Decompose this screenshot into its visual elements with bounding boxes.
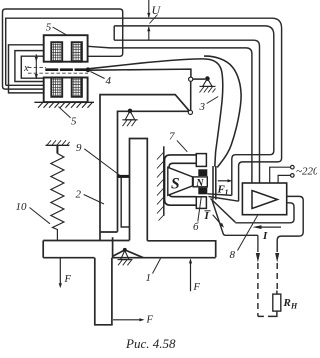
- knife edge pivot of beam: [118, 248, 133, 265]
- amplifier 8 box: [242, 183, 286, 215]
- magnet S cone: [168, 167, 193, 195]
- svg-text:S: S: [171, 176, 180, 193]
- svg-text:I: I: [204, 210, 210, 222]
- vertical link between joints: [190, 81, 192, 110]
- svg-text:F: F: [193, 282, 201, 293]
- svg-text:б: б: [193, 221, 199, 233]
- transformer core 5 (top E-core): [44, 35, 88, 62]
- dashed connection to load: [258, 263, 277, 316]
- svg-text:F: F: [146, 315, 154, 326]
- F1 force arrow: [218, 179, 233, 182]
- dashed gap lines near armature: [28, 67, 88, 73]
- lever 3 curved arm (inner edge, from armature): [90, 59, 223, 167]
- wire W1 wrap: core right lower terminal around top-left down to bottom core: [3, 9, 123, 89]
- spring anchor: [46, 140, 70, 153]
- ground hatch under bottom core: [34, 102, 94, 108]
- wire W3-W4 jog: [113, 26, 115, 40]
- svg-text:Рис. 4.58: Рис. 4.58: [125, 336, 176, 351]
- yoke pole blocks: [196, 154, 206, 209]
- wire W2 bus y18: [6, 18, 282, 201]
- link 9 (dark bar): [118, 175, 130, 178]
- svg-text:H: H: [290, 302, 298, 311]
- svg-text:3: 3: [199, 101, 206, 113]
- ~220 terminals: [270, 165, 294, 183]
- current I arrow near coil: [213, 215, 224, 228]
- output arrows to load: [256, 235, 279, 262]
- force F at bottom (right arrow): [113, 318, 145, 321]
- coil winding grids (top core): [52, 43, 81, 60]
- svg-text:4: 4: [106, 75, 112, 87]
- svg-text:x: x: [23, 63, 29, 74]
- coil wires fan: [208, 194, 258, 236]
- svg-text:8: 8: [230, 249, 236, 261]
- svg-text:F: F: [64, 274, 72, 285]
- coil winding grids (bottom core): [52, 78, 81, 95]
- thin rod right of channel: [121, 177, 129, 228]
- svg-text:5: 5: [71, 116, 77, 128]
- spring 10: [51, 154, 64, 241]
- beam 1: [43, 237, 216, 257]
- svg-text:N: N: [195, 178, 204, 189]
- wire W5 bus y48 from top core right upper terminal: [88, 46, 252, 183]
- svg-text:I: I: [262, 230, 268, 242]
- central column: [130, 139, 148, 241]
- x displacement arrow: [35, 54, 38, 79]
- wire W4 bus y40: [114, 40, 259, 183]
- joint circle top: [189, 77, 193, 81]
- armature junction blob: [86, 67, 91, 72]
- amp right output wire: [277, 196, 303, 252]
- U supply arrows: [147, 0, 157, 40]
- wire T1 top core upper-left terminal wrap: [9, 45, 45, 93]
- joint circle bottom: [188, 110, 192, 114]
- current I arrow under amp: [253, 225, 282, 229]
- lever from armature (bottom edge): [90, 69, 191, 77]
- wire T2 top core lower-left terminal wrap: [15, 51, 44, 82]
- svg-text:7: 7: [169, 131, 175, 143]
- lower column of beam: [95, 258, 112, 325]
- force F left (down arrow): [59, 258, 62, 288]
- amplifier triangle: [252, 191, 278, 209]
- svg-text:10: 10: [16, 201, 28, 213]
- link from joint to pivot: [193, 78, 205, 80]
- transformer core 5 (bottom E-core): [44, 78, 88, 103]
- flexure vane: [213, 166, 216, 200]
- svg-text:~220: ~220: [296, 166, 317, 178]
- pivot of lever 3: [200, 76, 216, 92]
- lever 2 frame: top arm: [100, 95, 189, 241]
- magnet wall hatch: [157, 146, 164, 220]
- coil 6 black sections: [198, 169, 207, 176]
- lever 3 curved arm (outer edge): [204, 56, 241, 167]
- svg-text:1: 1: [146, 272, 152, 284]
- svg-text:5: 5: [46, 22, 52, 34]
- svg-text:R: R: [283, 297, 291, 309]
- wire W2 left tail into bottom core: [6, 84, 44, 86]
- armature bar 4: [45, 68, 88, 71]
- svg-text:9: 9: [76, 142, 82, 154]
- load resistor RH: [268, 291, 281, 317]
- N pole box: [193, 177, 207, 187]
- pivot of lever 2: [122, 109, 137, 127]
- force F right (up arrow): [189, 258, 192, 291]
- svg-text:2: 2: [76, 189, 82, 201]
- svg-text:U: U: [152, 3, 162, 17]
- wire W3 bus y26: [114, 26, 274, 196]
- armature guide box around x marker: [21, 56, 44, 78]
- magnet yoke 7: [165, 155, 197, 205]
